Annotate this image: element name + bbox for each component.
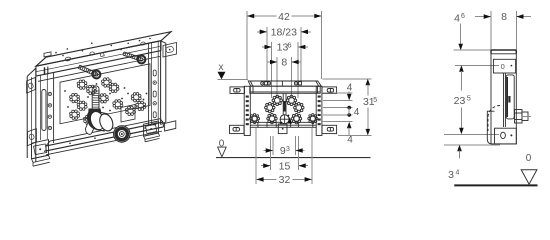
svg-text:8: 8	[281, 57, 287, 69]
svg-text:9: 9	[280, 145, 286, 157]
svg-text:5: 5	[467, 96, 471, 103]
svg-text:6: 6	[461, 13, 465, 20]
svg-text:0: 0	[501, 62, 505, 71]
svg-text:42: 42	[278, 11, 290, 23]
svg-text:0: 0	[219, 139, 225, 150]
svg-text:18/23: 18/23	[271, 26, 297, 38]
svg-text:15: 15	[279, 160, 291, 172]
svg-text:4: 4	[347, 135, 353, 146]
svg-text:x: x	[219, 62, 224, 73]
svg-text:8: 8	[501, 11, 507, 23]
svg-text:23: 23	[454, 95, 466, 107]
svg-text:4: 4	[454, 13, 460, 25]
svg-text:0: 0	[526, 153, 532, 164]
svg-text:4: 4	[456, 170, 460, 177]
svg-text:4: 4	[347, 83, 353, 94]
svg-text:4: 4	[354, 107, 360, 118]
svg-text:3: 3	[448, 169, 454, 181]
svg-text:6: 6	[287, 40, 291, 49]
svg-text:32: 32	[279, 174, 291, 186]
svg-text:3: 3	[286, 146, 290, 153]
svg-text:5: 5	[373, 97, 377, 104]
